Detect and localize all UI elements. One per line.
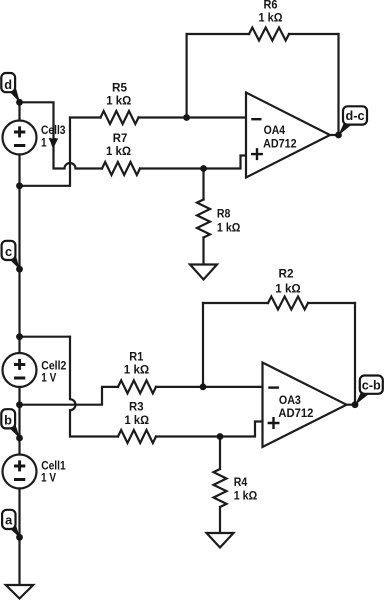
node label c — [2, 241, 20, 270]
wire junction c to x=70 branch — [20, 336, 71, 338]
wire R4 bottom lead — [219, 507, 221, 533]
svg-text:R1: R1 — [129, 350, 143, 364]
node junction c — [16, 266, 23, 273]
svg-text:c: c — [5, 244, 12, 259]
wire Cell3 bottom to junction — [18, 155, 20, 186]
svg-text:1 kΩ: 1 kΩ — [234, 489, 258, 503]
wire Cell2 bottom to node b — [18, 387, 20, 438]
wire R6 top feedback — [187, 33, 249, 35]
svg-text:OA3: OA3 — [279, 393, 301, 407]
wire R5 to OA4 inverting input — [139, 116, 247, 118]
svg-text:R8: R8 — [217, 207, 231, 221]
wire node b to R1 — [20, 387, 119, 405]
Cell3 plus/minus — [14, 126, 25, 145]
svg-text:1 V: 1 V — [41, 136, 56, 150]
wire R1 to OA3 inverting input — [156, 386, 263, 388]
op-amp U-OA4 triangle — [246, 93, 330, 178]
svg-text:a: a — [5, 512, 13, 527]
wire R8 bottom lead — [202, 238, 204, 265]
node pointer target a — [16, 534, 23, 541]
op-amp OA4 minus — [251, 118, 261, 120]
svg-text:c-b: c-b — [362, 378, 381, 393]
wire R4 top lead — [219, 437, 221, 470]
wire node c to R5 (left lead) — [70, 116, 101, 118]
Cell1 plus/minus — [14, 460, 25, 479]
node junction OA3 output — [352, 401, 359, 408]
svg-text:1 V: 1 V — [41, 371, 56, 385]
wire OA3 output — [347, 404, 356, 406]
svg-text:1 kΩ: 1 kΩ — [125, 413, 150, 427]
resistor R3 — [118, 430, 156, 443]
svg-text:1 kΩ: 1 kΩ — [124, 363, 150, 377]
node junction R6-R5 inverting — [183, 114, 190, 121]
svg-text:R3: R3 — [129, 400, 144, 414]
wire R8 top lead — [202, 169, 204, 200]
svg-text:OA4: OA4 — [264, 123, 286, 137]
wire R2 left lead — [203, 302, 268, 304]
wire R6 right vertical to output — [337, 34, 339, 135]
wire node d down and to R7 with hop — [20, 102, 103, 168]
svg-text:AD712: AD712 — [263, 137, 297, 151]
op-amp U-OA3 triangle — [263, 363, 347, 448]
node junction R4 — [217, 433, 224, 440]
svg-text:1 kΩ: 1 kΩ — [259, 11, 283, 25]
wire R2 right lead — [308, 302, 355, 304]
wire rail node c — [18, 186, 20, 337]
ground below R8 — [190, 265, 217, 280]
current arrow on node-d wire — [49, 138, 59, 147]
svg-text:d-c: d-c — [346, 108, 365, 123]
resistor R5 — [101, 111, 139, 124]
node junction R8 — [200, 165, 207, 172]
op-amp OA4 plus — [251, 148, 263, 160]
voltage source Cell3 — [3, 121, 37, 155]
svg-text:R4: R4 — [234, 475, 248, 489]
wire R3 to OA3 non-inverting step — [156, 422, 263, 437]
svg-text:d: d — [4, 77, 12, 92]
wire R6 right lead — [289, 33, 339, 35]
ground bottom left — [6, 585, 33, 599]
wire R7 to OA4 non-inverting step — [140, 156, 246, 169]
voltage source Cell1 — [3, 455, 37, 489]
wire R6 left vertical to inverting node — [186, 34, 188, 118]
svg-text:AD712: AD712 — [278, 406, 313, 420]
wire R2 right vertical to output — [354, 303, 356, 405]
node junction OA4 output — [335, 132, 342, 139]
svg-text:1 kΩ: 1 kΩ — [106, 94, 131, 108]
svg-text:1 kΩ: 1 kΩ — [106, 144, 131, 158]
node junction cell2 top — [16, 333, 23, 340]
resistor R2 — [268, 297, 308, 310]
op-amp OA3 plus — [268, 417, 280, 429]
svg-text:b: b — [4, 413, 12, 428]
resistor R6 — [249, 28, 289, 41]
node label d — [1, 73, 20, 103]
resistor R4 — [214, 469, 227, 507]
node junction d — [16, 99, 23, 106]
svg-text:1 kΩ: 1 kΩ — [217, 220, 241, 234]
ground below R4 — [207, 533, 234, 548]
wire Cell1 bottom to ground — [18, 489, 20, 586]
Cell2 plus/minus — [14, 359, 25, 378]
wire node b to Cell1 top — [18, 438, 20, 455]
node label a — [2, 510, 20, 538]
svg-text:R7: R7 — [113, 131, 128, 145]
wire rail to Cell2 top — [18, 337, 20, 353]
resistor R1 — [118, 380, 156, 393]
node junction cell3 bottom — [16, 182, 23, 189]
node pointer target b — [16, 435, 23, 442]
node label b — [1, 409, 20, 438]
wire OA4 output — [330, 134, 339, 136]
svg-text:R2: R2 — [279, 266, 294, 280]
node label d-c — [338, 106, 367, 135]
node junction R2-R1 inverting — [200, 384, 207, 391]
node junction b — [16, 401, 23, 408]
svg-text:1 V: 1 V — [41, 471, 56, 485]
node label c-b — [355, 376, 383, 406]
resistor R7 — [102, 162, 140, 175]
wire R2 left vertical — [202, 303, 204, 387]
svg-text:1 kΩ: 1 kΩ — [275, 282, 301, 296]
op-amp OA3 minus — [268, 386, 279, 388]
left rail node d to Cell3 — [18, 102, 20, 120]
resistor R8 — [197, 200, 210, 238]
voltage source Cell2 — [3, 353, 37, 387]
wire c-branch down with hop over b wire — [70, 337, 118, 437]
wire vertical c-branch x=70 — [20, 118, 71, 186]
